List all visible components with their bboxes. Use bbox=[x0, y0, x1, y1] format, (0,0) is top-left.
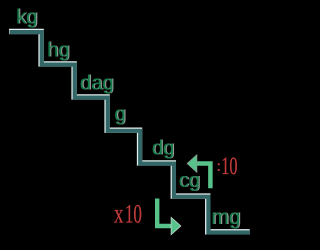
svg-text:10: 10 bbox=[125, 198, 142, 228]
svg-text:kg: kg bbox=[16, 6, 37, 29]
multiply arrow head (points right) bbox=[171, 217, 181, 234]
red label x10 bbox=[114, 198, 142, 229]
red label :10 bbox=[218, 152, 238, 180]
svg-text:mg: mg bbox=[211, 206, 240, 229]
multiply arrow (x10) shaft bbox=[157, 199, 171, 227]
svg-text:10: 10 bbox=[221, 152, 237, 180]
staircase highlight (light edge) bbox=[9, 31, 250, 231]
svg-text:dag: dag bbox=[80, 71, 114, 94]
staircase main line bbox=[9, 32, 249, 232]
svg-text:g: g bbox=[114, 102, 125, 125]
svg-text:hg: hg bbox=[47, 39, 69, 62]
divide arrow (:10) shaft bbox=[197, 164, 211, 189]
divide arrow head (points left) bbox=[187, 155, 197, 173]
svg-text:dg: dg bbox=[152, 137, 174, 160]
svg-text:x: x bbox=[114, 199, 124, 229]
